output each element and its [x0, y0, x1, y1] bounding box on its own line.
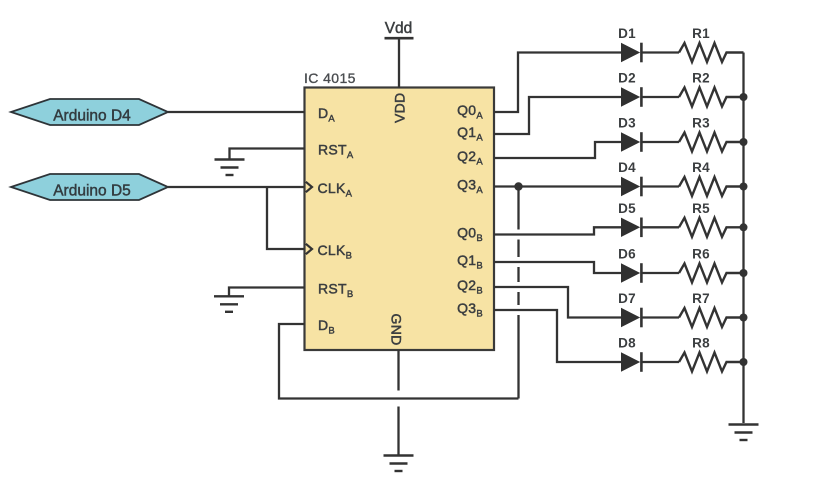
- wire CLKA branch to CLKB: [267, 187, 305, 249]
- ground at GND pin: [384, 456, 414, 472]
- wire GND pin to ground (crossover gap): [397, 350, 399, 455]
- wire D5 cathode to R5: [643, 226, 680, 228]
- svg-text:R4: R4: [692, 160, 710, 175]
- junction node bus/R7: [740, 314, 748, 322]
- svg-text:Arduino D4: Arduino D4: [53, 108, 131, 125]
- ground at RSTB: [214, 296, 244, 312]
- resistor R4: [679, 160, 744, 196]
- power symbol Vdd: [385, 20, 414, 38]
- wire right bus: [742, 53, 744, 424]
- resistor R7: [679, 291, 744, 327]
- junction node at Q3A: [514, 182, 522, 190]
- svg-text:Arduino D5: Arduino D5: [53, 183, 131, 200]
- wire RSTB to ground: [229, 288, 305, 297]
- svg-text:D6: D6: [618, 247, 636, 262]
- wire Q3A feedback to DB: [279, 324, 519, 399]
- junction node bus/R6: [740, 269, 748, 277]
- svg-text:R8: R8: [692, 336, 710, 351]
- junction node bus/R4: [740, 183, 748, 191]
- diode D6: [618, 247, 641, 283]
- svg-text:R7: R7: [692, 291, 710, 306]
- wire Arduino D4 to DA: [168, 111, 305, 113]
- wire Q0A to diode: [494, 53, 621, 113]
- wire Q0B to diode: [494, 227, 621, 234]
- wire D8 cathode to R8: [643, 361, 680, 363]
- junction node bus/R2: [740, 93, 748, 101]
- diode D5: [618, 201, 641, 237]
- svg-text:D2: D2: [618, 71, 636, 86]
- wire D7 cathode to R7: [643, 316, 680, 318]
- svg-text:IC 4015: IC 4015: [304, 70, 356, 86]
- junction node bus/R5: [740, 223, 748, 231]
- junction node bus/R3: [740, 138, 748, 146]
- svg-text:D3: D3: [618, 116, 636, 131]
- clock arrow CLKA: [306, 182, 312, 192]
- resistor R5: [679, 201, 744, 237]
- diode D7: [618, 291, 641, 327]
- svg-text:D7: D7: [618, 291, 636, 306]
- svg-text:R1: R1: [692, 26, 710, 41]
- resistor R1: [679, 26, 744, 62]
- diode D2: [618, 71, 641, 107]
- wire Vdd to VDD pin: [398, 38, 400, 87]
- resistor R2: [679, 71, 744, 107]
- wire D1 cathode to R1: [643, 51, 680, 53]
- svg-text:R3: R3: [692, 116, 710, 131]
- wire D2 cathode to R2: [643, 96, 680, 98]
- svg-text:D5: D5: [618, 201, 636, 216]
- junction node bus/R8: [740, 358, 748, 366]
- ground at RSTA: [215, 160, 245, 176]
- wire RSTA to ground: [230, 149, 305, 160]
- resistor R3: [679, 116, 744, 152]
- ground at bus: [729, 425, 759, 441]
- IC U1 body (CD4015 dual shift register): [305, 88, 495, 351]
- clock arrow CLKB: [306, 244, 312, 254]
- wire Q3A to diode: [494, 185, 621, 187]
- wire Q1B to diode: [494, 262, 621, 273]
- wire Q2B to diode: [494, 287, 621, 318]
- diode D8: [618, 336, 641, 372]
- wire Arduino D5 to CLKA: [168, 186, 305, 188]
- resistor R8: [679, 336, 744, 372]
- svg-text:R5: R5: [692, 201, 710, 216]
- wire D3 cathode to R3: [643, 141, 680, 143]
- svg-text:GND: GND: [389, 314, 405, 346]
- wire Q2A to diode: [494, 142, 621, 158]
- resistor R6: [679, 247, 744, 283]
- svg-text:D1: D1: [618, 26, 636, 41]
- diode D3: [618, 116, 641, 152]
- svg-text:R2: R2: [692, 71, 710, 86]
- svg-text:R6: R6: [692, 247, 710, 262]
- wire Q3B to diode: [494, 310, 621, 362]
- diode D4: [618, 160, 641, 196]
- wire D6 cathode to R6: [643, 272, 680, 274]
- wire feedback vertical from Q3A node (with crossover gaps): [517, 187, 519, 399]
- svg-text:D4: D4: [618, 160, 636, 175]
- net flag Arduino D5: [11, 174, 168, 200]
- svg-text:Vdd: Vdd: [385, 20, 413, 37]
- svg-text:VDD: VDD: [391, 93, 407, 123]
- net flag Arduino D4: [11, 99, 168, 125]
- svg-text:D8: D8: [618, 336, 636, 351]
- wire Q1A to diode: [494, 97, 621, 134]
- diode D1: [618, 26, 641, 62]
- wire D4 cathode to R4: [643, 185, 680, 187]
